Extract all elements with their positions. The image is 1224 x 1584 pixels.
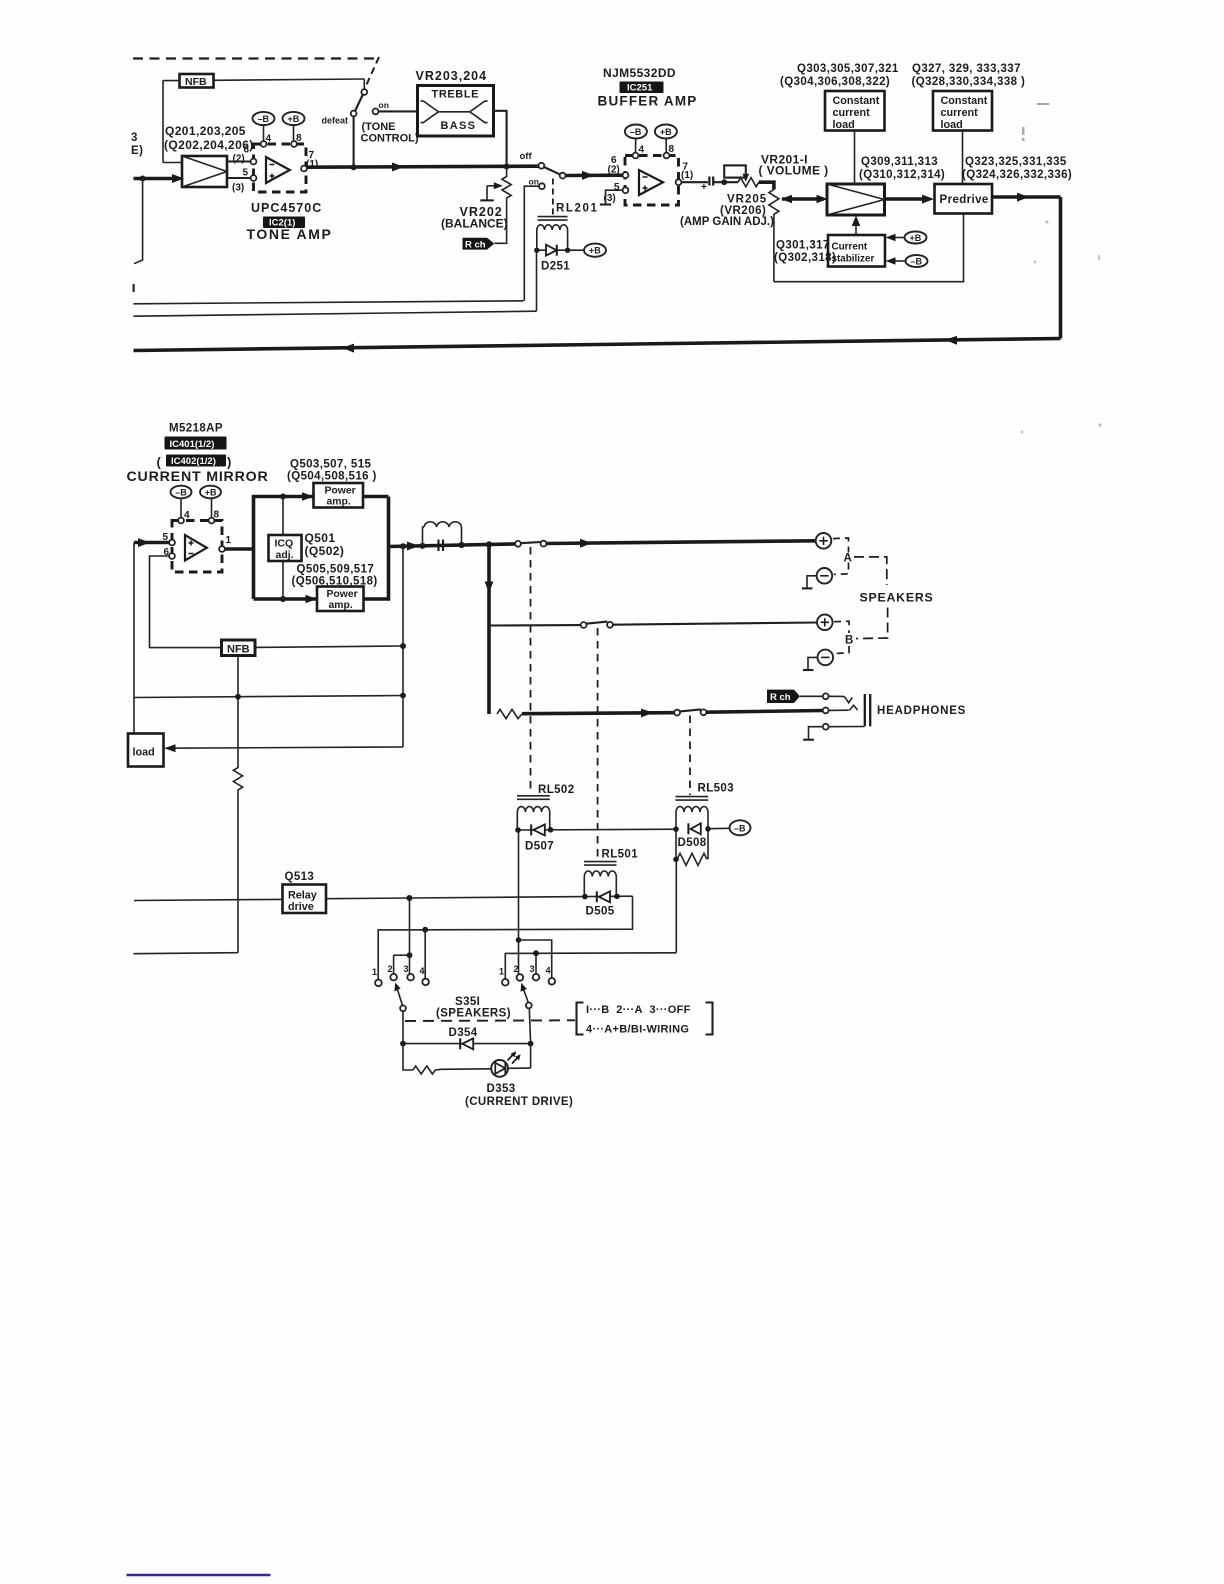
wire volume top corner xyxy=(759,182,774,189)
svg-text:Predrive: Predrive xyxy=(940,194,989,206)
svg-text:1: 1 xyxy=(372,967,377,977)
resistor R (RL503 shunt) xyxy=(673,853,707,865)
svg-text:drive: drive xyxy=(288,901,314,913)
relay RL201 dashed actuator xyxy=(552,179,554,215)
svg-text:3: 3 xyxy=(131,132,138,144)
diode D507 xyxy=(515,824,676,852)
switch S351-2 blade xyxy=(521,983,532,1044)
switch S251 off/on (muting) xyxy=(520,151,566,301)
svg-text:current: current xyxy=(941,107,979,119)
svg-text:(BALANCE): (BALANCE) xyxy=(441,217,508,231)
pin circles tone op-amp xyxy=(232,145,318,194)
label Q327 set xyxy=(912,63,1026,88)
svg-text:adj.: adj. xyxy=(276,549,294,561)
svg-text:2: 2 xyxy=(514,964,519,974)
power +B (relay D251) xyxy=(584,244,606,257)
wire cap to volume xyxy=(714,179,738,185)
svg-text:Q505,509,517: Q505,509,517 xyxy=(297,564,375,576)
svg-text:3: 3 xyxy=(404,964,409,974)
svg-text:TONE AMP: TONE AMP xyxy=(247,226,333,242)
svg-text:(3): (3) xyxy=(232,183,244,194)
svg-text:(Q304,306,308,322): (Q304,306,308,322) xyxy=(780,76,890,88)
svg-text:Q201,203,205: Q201,203,205 xyxy=(165,124,246,138)
wire relay drive input xyxy=(134,899,283,900)
svg-text:TREBLE: TREBLE xyxy=(432,89,480,101)
relay RL501 coil xyxy=(584,849,638,897)
power +B (current mirror) xyxy=(200,486,221,518)
power +B (stabilizer) xyxy=(886,232,927,244)
wire speaker B line xyxy=(489,624,581,627)
resistor R (headphone series) xyxy=(497,709,522,718)
R ch flag (balance) xyxy=(463,238,495,251)
op-amp IC251 triangle xyxy=(639,170,663,195)
svg-text:R ch: R ch xyxy=(465,239,486,250)
svg-text:(1): (1) xyxy=(681,170,693,181)
svg-text:stabilizer: stabilizer xyxy=(832,254,875,265)
svg-text:Constant: Constant xyxy=(941,95,988,107)
wire gain feedback loop xyxy=(774,214,964,282)
svg-text:–B: –B xyxy=(911,257,923,267)
svg-text:4: 4 xyxy=(266,134,272,145)
svg-text:RL201: RL201 xyxy=(556,203,599,215)
relay RL501 dashed actuator xyxy=(597,628,599,860)
svg-text:Constant: Constant xyxy=(833,95,880,107)
wire VR205 wiper xyxy=(781,195,828,203)
svg-text:CURRENT MIRROR: CURRENT MIRROR xyxy=(127,469,269,485)
svg-text:NJM5532DD: NJM5532DD xyxy=(603,66,676,80)
dashed gang link S351 xyxy=(405,1019,575,1022)
svg-text:(Q202,204,206): (Q202,204,206) xyxy=(164,138,254,152)
svg-text:4···A+B/BI-WIRING: 4···A+B/BI-WIRING xyxy=(586,1024,689,1036)
label Q309 set xyxy=(859,156,945,181)
svg-text:S35I: S35I xyxy=(455,996,480,1008)
predrive box Q323 set xyxy=(935,184,993,214)
diode D354 xyxy=(400,1027,533,1049)
jack headphones contacts xyxy=(823,693,865,729)
svg-text:–B: –B xyxy=(630,127,642,137)
scan specks xyxy=(982,101,1102,434)
svg-text:–B: –B xyxy=(175,488,187,498)
svg-text:Q303,305,307,321: Q303,305,307,321 xyxy=(797,63,899,75)
power -B (tone amp) xyxy=(253,112,275,141)
power amp box (upper) Q503 xyxy=(314,483,364,508)
op-amp U IC2(1) dashed package xyxy=(254,133,307,192)
IC labels tone amp xyxy=(247,201,333,242)
wire relay drive output xyxy=(326,895,633,901)
svg-text:defeat: defeat xyxy=(322,116,349,126)
bracket B xyxy=(834,621,849,653)
svg-text:+B: +B xyxy=(205,488,217,498)
svg-text:(Q324,326,332,336): (Q324,326,332,336) xyxy=(962,169,1072,181)
pin circles current mirror op-amp xyxy=(163,532,232,559)
relay drive box Q513 xyxy=(283,885,327,914)
svg-text:load: load xyxy=(133,747,155,759)
svg-text:(: ( xyxy=(157,455,162,470)
wire NFB tap vertical xyxy=(402,546,404,747)
svg-text:4: 4 xyxy=(546,966,551,976)
legend bracket left xyxy=(577,1003,584,1035)
potentiometer VR205 gain adj xyxy=(680,190,779,282)
diode D251 xyxy=(534,245,584,273)
svg-text:2: 2 xyxy=(388,964,393,974)
svg-text:Q309,311,313: Q309,311,313 xyxy=(861,156,938,168)
R ch flag (headphones) xyxy=(767,690,823,703)
wire amp to predrive xyxy=(885,195,935,204)
svg-text:D508: D508 xyxy=(678,837,707,849)
wire relay drive to contacts 2,3 (left group) xyxy=(394,898,413,974)
NFB box (power amp feedback) xyxy=(222,640,407,656)
resistor R (NFB network) xyxy=(134,656,243,954)
scan underline mark (bottom left, blue) xyxy=(127,1574,271,1577)
svg-text:(Q302,318): (Q302,318) xyxy=(774,252,836,264)
bracket A xyxy=(833,538,849,574)
svg-text:RL502: RL502 xyxy=(538,784,575,796)
wire return line B (RL201 to left) xyxy=(134,253,537,317)
capacitor C (coupling, polarized) xyxy=(701,177,713,194)
ground (headphone sleeve) xyxy=(803,727,823,740)
terminal speaker B - xyxy=(818,650,834,666)
svg-text:I···B 2···A 3···OFF: I···B 2···A 3···OFF xyxy=(586,1004,691,1016)
svg-text:(Q310,312,314): (Q310,312,314) xyxy=(859,169,945,181)
wire block to op-amp pins xyxy=(227,162,251,179)
terminal speaker A + xyxy=(816,533,832,549)
svg-text:+: + xyxy=(701,182,707,193)
terminal speaker A - xyxy=(817,568,833,584)
svg-text:Q301,317: Q301,317 xyxy=(776,240,830,252)
svg-text:Power: Power xyxy=(327,589,358,600)
svg-text:amp.: amp. xyxy=(329,600,353,611)
label Q323 set xyxy=(962,156,1072,181)
power -B (buffer) xyxy=(625,125,647,153)
wire RL503 return (to contacts 1,3) xyxy=(675,859,677,953)
switch speakers B xyxy=(581,622,613,628)
current stabilizer box Q301 xyxy=(828,216,885,267)
power amp box (lower) Q505 xyxy=(317,587,364,612)
op-amp IC2(1) triangle xyxy=(266,157,290,183)
constant current load box 2 xyxy=(933,91,992,184)
label Q503 set xyxy=(287,459,377,483)
svg-text:ICQ: ICQ xyxy=(275,538,294,550)
wire pin6 to NFB xyxy=(150,556,222,648)
svg-text:(Q328,330,334,338 ): (Q328,330,334,338 ) xyxy=(912,76,1026,88)
label Q301 set xyxy=(774,240,836,265)
svg-text:3: 3 xyxy=(530,964,535,974)
ground (speaker A -) xyxy=(802,576,817,589)
wire relay return loop xyxy=(378,896,632,979)
wire RL502 return (to contact 2) xyxy=(516,830,552,978)
wire to speaker B + xyxy=(613,623,817,625)
svg-text:Q501: Q501 xyxy=(305,531,336,545)
wire op-amp output xyxy=(225,547,254,551)
NFB box (tone amp feedback) xyxy=(163,74,364,163)
wire main input (power amp stage) xyxy=(134,538,169,547)
diode D508 xyxy=(673,823,729,849)
switch S351-2 contacts (right group) xyxy=(499,964,555,986)
label Q201 set xyxy=(164,124,254,152)
potentiometer VR202 balance xyxy=(441,167,511,244)
svg-text:Q503,507, 515: Q503,507, 515 xyxy=(290,459,371,471)
svg-text:5: 5 xyxy=(614,182,620,193)
svg-text:4: 4 xyxy=(184,510,190,521)
svg-text:A: A xyxy=(844,553,853,565)
power +B (tone amp) xyxy=(283,112,305,141)
svg-text:Relay: Relay xyxy=(288,890,317,902)
wire buffer output xyxy=(681,181,708,183)
wire headphone line xyxy=(522,709,674,718)
wire main signal (tone out) xyxy=(307,163,539,172)
svg-text:amp.: amp. xyxy=(327,497,351,508)
svg-text:): ) xyxy=(227,455,231,470)
svg-text:R ch: R ch xyxy=(770,692,791,703)
legend text xyxy=(586,1004,691,1036)
label Q303 set xyxy=(780,63,899,88)
power amp block outline Q501 xyxy=(254,492,389,603)
left margin remnant text xyxy=(131,132,143,157)
diode D505 xyxy=(582,891,620,917)
svg-text:IC402(1/2): IC402(1/2) xyxy=(171,456,216,467)
svg-text:8: 8 xyxy=(669,144,675,155)
legend bracket right xyxy=(706,1003,713,1035)
svg-text:off: off xyxy=(520,151,533,162)
svg-text:RL503: RL503 xyxy=(698,783,735,795)
wire to headphone tip xyxy=(706,711,822,713)
switch headphones xyxy=(674,709,706,715)
power -B (current mirror) xyxy=(171,486,192,518)
wire speaker bus down xyxy=(485,545,494,715)
constant current load box (left, cropped) xyxy=(128,734,164,767)
svg-text:(AMP GAIN ADJ.): (AMP GAIN ADJ.) xyxy=(680,216,774,228)
relay RL201 xyxy=(537,203,599,251)
constant current load box 1 xyxy=(825,91,885,184)
svg-text:M5218AP: M5218AP xyxy=(169,423,223,435)
wire load return xyxy=(165,744,404,752)
IC labels current mirror xyxy=(127,423,269,486)
ground stub (buffer pin5) xyxy=(600,190,623,204)
wire contacts 1,3 (right group) xyxy=(505,950,676,979)
svg-text:8: 8 xyxy=(296,133,302,144)
label S351 xyxy=(436,996,511,1020)
svg-text:+B: +B xyxy=(910,233,922,243)
resistor VR201-1 element xyxy=(738,178,759,187)
svg-text:4: 4 xyxy=(639,145,645,156)
svg-text:( VOLUME ): ( VOLUME ) xyxy=(759,164,829,178)
svg-text:HEADPHONES: HEADPHONES xyxy=(877,705,966,717)
label tone control xyxy=(361,121,419,145)
node speaker bus xyxy=(486,541,492,547)
svg-text:(2): (2) xyxy=(608,165,620,176)
svg-text:(TONE: (TONE xyxy=(362,121,396,133)
svg-text:(Q504,508,516 ): (Q504,508,516 ) xyxy=(287,471,377,483)
svg-text:on: on xyxy=(379,100,389,110)
svg-text:load: load xyxy=(833,119,855,131)
pin circles buffer op-amp xyxy=(604,155,694,204)
svg-text:UPC4570C: UPC4570C xyxy=(251,201,322,215)
svg-text:(Q502): (Q502) xyxy=(305,544,345,558)
svg-text:5: 5 xyxy=(243,168,249,179)
relay RL503 dashed actuator xyxy=(689,716,691,796)
power -B (stabilizer) xyxy=(886,255,928,267)
svg-text:(2): (2) xyxy=(233,154,245,165)
op-amp IC401 triangle xyxy=(185,535,207,561)
svg-text:–B: –B xyxy=(258,114,270,124)
svg-text:NFB: NFB xyxy=(227,643,250,655)
LED D353 current drive xyxy=(403,1044,573,1108)
svg-text:current: current xyxy=(833,107,871,119)
svg-text:D507: D507 xyxy=(525,841,554,853)
svg-text:(SPEAKERS): (SPEAKERS) xyxy=(436,1008,511,1020)
op-amp U IC401 dashed package xyxy=(172,510,222,573)
label VR201-1 volume xyxy=(759,153,829,178)
relay RL502 dashed actuator xyxy=(530,547,532,794)
svg-text:IC401(1/2): IC401(1/2) xyxy=(170,439,215,450)
svg-text:Power: Power xyxy=(325,486,356,497)
jack headphones body xyxy=(865,694,870,726)
svg-text:D251: D251 xyxy=(541,261,570,273)
svg-text:D505: D505 xyxy=(586,906,615,918)
input buffer block (tone amp input) xyxy=(182,156,227,187)
switch speakers A xyxy=(515,541,546,547)
wire mid bus xyxy=(134,693,406,700)
label Q501 xyxy=(305,531,345,558)
wire predrive output xyxy=(992,193,1061,339)
wire main NFB bus (bottom) xyxy=(134,336,1061,353)
svg-text:VR205: VR205 xyxy=(727,194,767,206)
wire left rail down xyxy=(133,543,135,734)
treble/bass tone control box VR203 VR204 xyxy=(418,86,494,137)
svg-text:8: 8 xyxy=(214,510,220,521)
label Q505 set xyxy=(292,564,378,588)
svg-text:D353: D353 xyxy=(487,1083,516,1095)
svg-text:4: 4 xyxy=(420,966,425,976)
svg-text:IC251: IC251 xyxy=(627,83,653,94)
svg-text:VR203,204: VR203,204 xyxy=(416,69,488,83)
svg-text:BUFFER AMP: BUFFER AMP xyxy=(598,94,698,109)
IC labels buffer amp xyxy=(598,66,698,109)
svg-text:SPEAKERS: SPEAKERS xyxy=(860,591,934,605)
svg-text:on: on xyxy=(529,177,539,187)
svg-text:–B: –B xyxy=(734,823,746,833)
power +B (buffer) xyxy=(655,125,677,153)
svg-text:(CURRENT DRIVE): (CURRENT DRIVE) xyxy=(465,1096,573,1108)
svg-text:1: 1 xyxy=(226,535,232,546)
potentiometer VR201-1 volume body xyxy=(724,165,746,177)
ground (speaker B -) xyxy=(803,657,818,670)
switch tone control on xyxy=(373,100,418,114)
svg-text:Q323,325,331,335: Q323,325,331,335 xyxy=(965,156,1067,168)
switch S201 defeat xyxy=(322,89,368,166)
svg-text:RL501: RL501 xyxy=(602,849,639,861)
bracket speakers join xyxy=(854,557,888,639)
relay RL503 coil xyxy=(676,783,735,860)
switch S351-1 blade xyxy=(394,983,406,1044)
switch S351-1 contacts (left group) xyxy=(372,964,429,986)
op-amp U IC251 dashed package xyxy=(625,144,679,205)
wire main input xyxy=(134,174,185,292)
svg-text:Current: Current xyxy=(832,242,868,253)
dashed channel outline (top) xyxy=(133,57,379,89)
capacitor C (output filter) xyxy=(439,540,444,552)
svg-text:Q513: Q513 xyxy=(285,871,315,883)
svg-text:BASS: BASS xyxy=(441,120,477,132)
wire to speaker A + xyxy=(546,539,815,548)
wire power amp output xyxy=(389,542,516,551)
svg-text:NFB: NFB xyxy=(185,76,207,88)
relay RL502 coil xyxy=(517,784,575,830)
svg-text:load: load xyxy=(941,119,963,131)
svg-text:+B: +B xyxy=(660,127,672,137)
amplifier block Q309 set xyxy=(827,184,885,215)
wire return line A (to input selector) xyxy=(134,301,524,304)
node defeat junction xyxy=(351,164,357,170)
svg-text:Q327, 329, 333,337: Q327, 329, 333,337 xyxy=(912,63,1021,75)
svg-text:B: B xyxy=(845,635,854,647)
svg-text:+B: +B xyxy=(288,114,300,124)
terminal speaker B + xyxy=(817,615,833,631)
svg-text:+B: +B xyxy=(589,246,601,256)
inductor L (output filter) xyxy=(419,522,464,549)
power -B (relays) xyxy=(730,820,751,835)
wire line to buffer xyxy=(566,171,623,180)
svg-text:E): E) xyxy=(131,145,143,157)
ICQ adj box Q501 xyxy=(269,497,302,600)
svg-text:1: 1 xyxy=(499,967,504,977)
wire tone box output down to main line xyxy=(494,111,510,170)
svg-text:CONTROL): CONTROL) xyxy=(361,133,419,145)
